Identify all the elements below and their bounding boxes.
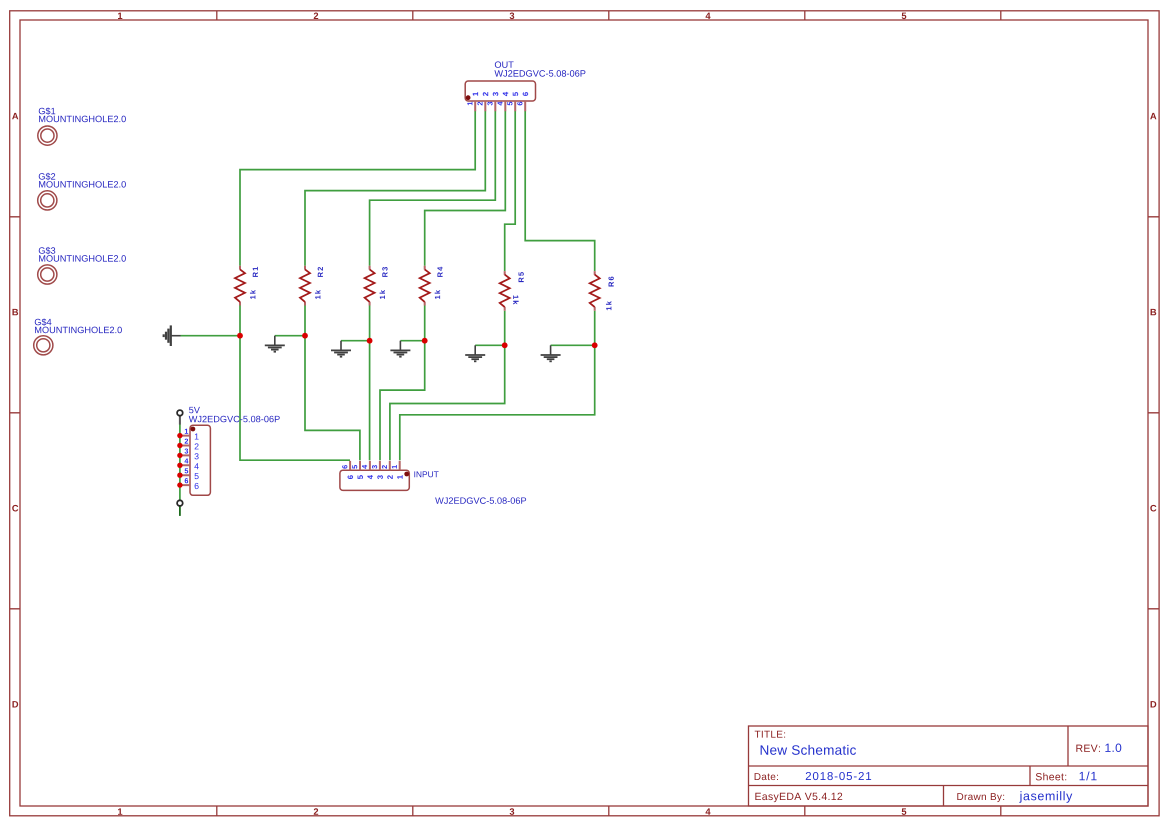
OUT pins 1-6 — [475, 101, 525, 111]
resistor R4 1k — [420, 266, 443, 306]
5V pin numbers (inner) 1-6 — [195, 434, 199, 440]
resistor body zigzag — [420, 269, 430, 302]
wire pin6 OUT to R6 — [525, 111, 595, 271]
wire R5 bottom to INPUT pin2 — [390, 311, 505, 461]
wire pin2 OUT to R2 — [305, 111, 485, 266]
INPUT origin marker — [404, 472, 409, 477]
R6 leads — [594, 271, 596, 311]
R6 value label 1k — [606, 301, 611, 310]
5V connector origin marker — [191, 427, 196, 432]
junction node R1 — [237, 333, 243, 339]
ground at R5 — [465, 345, 485, 361]
resistor R1 1k — [235, 266, 258, 306]
INPUT part number label WJ2EDGVC-5.08-06P — [435, 497, 526, 504]
R5 refdes label — [519, 272, 524, 282]
connector 5V WJ2EDGVC-5.08-06P — [177, 407, 280, 495]
junction node 5V pin1 — [177, 433, 182, 438]
wire R4 node to ground — [400, 340, 424, 342]
INPUT symbol body — [340, 470, 409, 490]
wire R6 bottom to INPUT pin1 — [400, 311, 595, 461]
junction node 5V pin3 — [177, 453, 182, 458]
5V pin numbers (outer) 1-6 — [185, 429, 188, 434]
junction node 5V pin2 — [177, 443, 182, 448]
wire pin4 OUT to R4 — [425, 111, 506, 266]
junction node R4 — [422, 338, 428, 344]
resistor body zigzag — [365, 269, 375, 302]
R5 leads — [504, 271, 506, 311]
wire pin3 OUT to R3 — [370, 111, 496, 266]
R1 leads — [239, 266, 241, 306]
netport bottom — [177, 500, 183, 516]
OUT part number label WJ2EDGVC-5.08-06P — [494, 70, 585, 77]
wire R5 node to ground — [475, 344, 505, 346]
wire pin1 OUT to R1 — [240, 111, 475, 266]
R5 value label 1k — [513, 295, 518, 304]
wire R6 node to ground — [551, 344, 595, 346]
net label 5V — [189, 407, 200, 413]
wire 5V bus — [179, 425, 181, 501]
INPUT pins 6-1 — [350, 461, 400, 470]
connector OUT WJ2EDGVC-5.08-06P — [465, 61, 585, 111]
OUT pin numbers (inner) 1-6 — [473, 92, 528, 96]
OUT symbol body — [465, 81, 535, 101]
ground at R2 — [265, 336, 285, 352]
mounting hole G$3 — [38, 247, 126, 284]
5V part number label WJ2EDGVC-5.08-06P — [189, 416, 280, 423]
wire R3 bottom to INPUT pin4 — [369, 306, 371, 461]
OUT name text — [495, 61, 514, 68]
junction node 5V pin4 — [177, 463, 182, 468]
wire R2 node to ground — [275, 335, 305, 337]
R1 refdes label — [253, 267, 258, 277]
OUT origin marker — [466, 95, 471, 100]
junction node R2 — [302, 333, 308, 339]
wire R3 node to ground — [341, 340, 370, 342]
INPUT name label — [414, 471, 438, 477]
wire R2 bottom to INPUT pin5 — [305, 306, 360, 461]
resistor body zigzag — [590, 275, 600, 308]
ground left of R1 — [164, 325, 181, 346]
junction node R3 — [367, 338, 373, 344]
resistor body zigzag — [235, 269, 245, 302]
R2 refdes label — [318, 267, 323, 277]
wire R1 node to ground — [181, 335, 241, 337]
R2 value label 1k — [315, 290, 320, 299]
R2 leads — [304, 266, 306, 306]
R6 refdes label — [608, 277, 613, 287]
ground at R6 — [541, 345, 561, 361]
junction node 5V pin5 — [177, 473, 182, 478]
R4 refdes label — [437, 267, 442, 277]
R3 refdes label — [382, 267, 387, 277]
INPUT pin numbers (inner) 6-1 — [348, 475, 403, 479]
mounting hole G$1 — [38, 107, 126, 145]
wire pin5 OUT to R5 — [505, 111, 516, 271]
title block — [749, 726, 1149, 806]
connector INPUT WJ2EDGVC-5.08-06P — [340, 461, 526, 504]
R4 value label 1k — [435, 290, 440, 299]
mounting hole G$4 — [34, 318, 122, 355]
resistor R5 1k — [500, 271, 524, 311]
resistor R2 1k — [300, 266, 323, 306]
OUT pin numbers (outer) 1-6 — [467, 102, 522, 106]
resistor body zigzag — [500, 275, 510, 308]
ground at R3 — [331, 341, 351, 357]
R4 leads — [424, 266, 426, 306]
INPUT pin numbers (outer) 6-1 — [342, 465, 397, 469]
junction node R6 — [592, 342, 598, 348]
R1 value label 1k — [250, 290, 255, 299]
junction node R5 — [502, 342, 508, 348]
ground at R4 — [390, 341, 410, 357]
resistor R6 1k — [590, 271, 614, 311]
resistor R3 1k — [365, 266, 388, 306]
5V connector symbol body — [190, 425, 210, 495]
R3 value label 1k — [380, 290, 385, 299]
5V connector pins 1-6 — [180, 436, 190, 486]
junction node 5V pin6 — [177, 482, 182, 487]
wire R4 bottom to INPUT pin3 — [380, 306, 425, 461]
mounting hole G$2 — [38, 173, 126, 210]
wire R1 bottom to INPUT pin6 — [240, 306, 350, 461]
resistor body zigzag — [300, 269, 310, 302]
netport 5V top — [177, 410, 183, 425]
R3 leads — [369, 266, 371, 306]
